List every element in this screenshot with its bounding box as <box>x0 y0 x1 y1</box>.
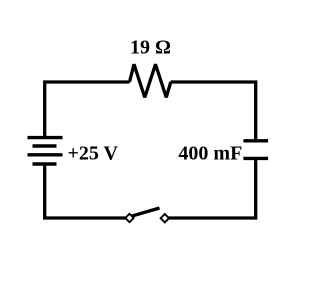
wire: left upper + top-left segment (battery + terminal up and across to resistor) <box>45 82 130 138</box>
battery B1 plate 2 (short) <box>33 144 57 147</box>
battery B1 plate 1 (long, + terminal) <box>28 136 63 139</box>
wire: bottom-left segment + left lower (switch across and up to battery - terminal) <box>45 164 126 218</box>
switch S1 arm (open blade) <box>132 208 160 216</box>
battery B1 plate 3 (long) <box>28 153 63 156</box>
switch S1 right contact <box>161 214 169 222</box>
capacitor C1 bottom plate <box>243 157 268 160</box>
svg-text:400 mF: 400 mF <box>178 143 242 165</box>
svg-text:+25 V: +25 V <box>68 142 119 164</box>
switch S1 left contact <box>125 214 133 222</box>
svg-text:19 Ω: 19 Ω <box>130 36 171 58</box>
wire: right lower + bottom-right segment (capacitor down and across to switch) <box>169 158 256 218</box>
wire: top-right segment + right upper (resistor across and down to capacitor) <box>171 82 256 141</box>
battery B1 plate 4 (short, - terminal) <box>33 162 57 165</box>
capacitor C1 top plate <box>243 139 268 142</box>
resistor R1 zigzag <box>130 64 171 97</box>
